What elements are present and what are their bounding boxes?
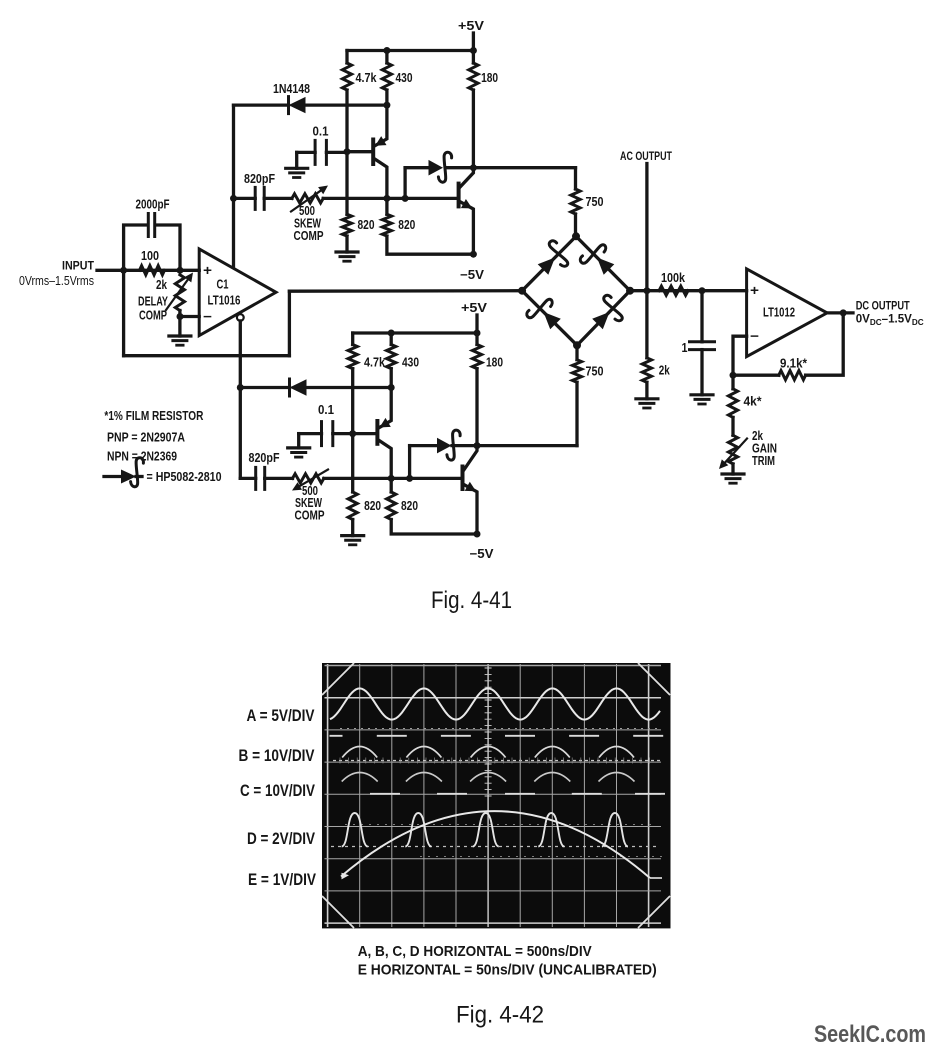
- svg-text:DELAY: DELAY: [138, 295, 168, 309]
- svg-text:4k*: 4k*: [744, 395, 762, 409]
- svg-text:+5V: +5V: [458, 19, 485, 33]
- inverting output circle: [237, 314, 244, 321]
- bridge diode bottom-right: [592, 312, 609, 329]
- svg-text:LT1012: LT1012: [763, 306, 795, 320]
- node output junction: [840, 309, 847, 316]
- diode 1N4148 wire: [234, 103, 289, 106]
- transistor Q1 emitter: [374, 105, 387, 146]
- ground under cap1: [691, 393, 713, 396]
- svg-text:−5V: −5V: [470, 547, 495, 561]
- node minus junction: [177, 313, 184, 320]
- node AC OUTPUT junction: [643, 287, 650, 294]
- node upper rail 430: [383, 47, 390, 54]
- wire 180 to node lower: [475, 369, 478, 446]
- svg-text:2k: 2k: [659, 364, 670, 378]
- node 820pF tap: [230, 195, 237, 202]
- wire 180 to node: [472, 90, 475, 168]
- bridge diode top-right: [597, 258, 614, 275]
- diode lower triangle: [290, 379, 307, 395]
- resistor 820 left upper: [342, 214, 351, 236]
- svg-text:PNP = 2N2907A: PNP = 2N2907A: [107, 431, 185, 445]
- svg-text:B = 10V/DIV: B = 10V/DIV: [239, 746, 316, 765]
- wire 820 left ground stem: [345, 236, 348, 252]
- wire feedback 9.1k row: [733, 374, 779, 377]
- wire AC OUTPUT vertical: [645, 164, 648, 358]
- diode HP5082 upper triangle: [429, 160, 444, 176]
- svg-text:2k: 2k: [156, 278, 167, 292]
- capacitor 0.1 upper: [314, 140, 317, 164]
- wire gain trim ground stem: [731, 464, 734, 474]
- svg-text:750: 750: [586, 365, 604, 379]
- resistor 820 right lower: [387, 492, 396, 520]
- svg-text:−: −: [203, 309, 212, 324]
- wire skew to Q2 base: [323, 197, 458, 200]
- wire 2k to ground: [178, 311, 181, 337]
- wire skew to Q4 base: [324, 477, 463, 480]
- wire feedback bottom: [124, 354, 290, 357]
- node -5V junction lower: [474, 531, 481, 538]
- wire lower rail: [353, 331, 477, 334]
- wire 820pF leads upper: [234, 197, 256, 200]
- svg-text:820: 820: [364, 499, 381, 513]
- node collector-skew junction lower: [388, 475, 395, 482]
- svg-text:C = 10V/DIV: C = 10V/DIV: [240, 781, 316, 800]
- node lower rail 430: [388, 330, 395, 337]
- wire special diode row lower: [410, 444, 438, 447]
- resistor 100k: [659, 286, 688, 295]
- capacitor 1 plates: [690, 340, 715, 343]
- wire -5V row upper: [387, 236, 474, 254]
- svg-text:0Vrms–1.5Vrms: 0Vrms–1.5Vrms: [19, 274, 94, 288]
- capacitor 2000pF loop wires: [124, 225, 146, 270]
- wire 820 left ground stem lower: [351, 520, 354, 536]
- wire 430 to diode node: [385, 90, 388, 105]
- transistor Q4 NPN base bar: [461, 467, 465, 490]
- node bridge right: [626, 287, 634, 295]
- transistor Q3 collector: [378, 440, 391, 478]
- resistor 820 right upper: [382, 214, 391, 236]
- wire 430 to diode node lower: [390, 369, 393, 388]
- arrow 2k delay comp: [166, 280, 188, 310]
- svg-text:750: 750: [586, 195, 604, 209]
- svg-text:100k: 100k: [661, 271, 685, 285]
- arrow skew comp lower: [300, 470, 328, 487]
- resistor 430 upper: [382, 63, 391, 90]
- wire 4.7k column upper: [345, 90, 348, 214]
- node bridge top: [572, 232, 580, 240]
- node bridge bottom: [573, 341, 581, 349]
- wire 0.1 leads upper: [297, 151, 315, 154]
- wire upper cell left vertical: [232, 105, 235, 267]
- svg-text:+: +: [203, 263, 212, 278]
- capacitor 0.1 lower: [320, 422, 323, 446]
- node feedback junction: [730, 372, 737, 379]
- transistor Q2 emitter: [460, 202, 474, 255]
- svg-text:Fig. 4-41: Fig. 4-41: [431, 587, 512, 614]
- svg-text:430: 430: [402, 356, 419, 370]
- svg-text:820: 820: [358, 218, 375, 232]
- ground under 0.1 upper: [286, 167, 308, 170]
- ground under 820 upper: [336, 250, 358, 253]
- svg-text:+: +: [750, 283, 759, 298]
- svg-text:430: 430: [396, 71, 413, 85]
- ground under 0.1 lower: [288, 446, 310, 449]
- resistor 500 skew comp lower: [293, 474, 324, 483]
- bridge arm bottom-left: [522, 291, 577, 346]
- svg-text:SeekIC.com: SeekIC.com: [814, 1021, 926, 1048]
- transistor Q2 collector: [460, 168, 474, 188]
- arrow gain trim: [725, 439, 747, 463]
- transistor Q2 NPN base bar: [457, 184, 461, 207]
- transistor Q3 PNP base bar: [375, 421, 379, 444]
- wire bridge to op-amp: [630, 289, 747, 292]
- wire special diode drop lower: [408, 446, 411, 479]
- wire +5V stub upper: [472, 33, 475, 51]
- svg-text:COMP: COMP: [295, 509, 325, 523]
- resistor 2k delay comp: [175, 275, 184, 311]
- node collector-skew junction: [383, 195, 390, 202]
- svg-text:*1% FILM RESISTOR: *1% FILM RESISTOR: [104, 409, 203, 423]
- legend diode squiggle: [131, 458, 144, 487]
- wire upper rail: [347, 49, 473, 52]
- wire 0.1 ground stem upper: [295, 152, 298, 168]
- bridge diode bottom-left: [544, 312, 561, 329]
- svg-text:DC OUTPUT: DC OUTPUT: [856, 299, 911, 313]
- capacitor 820pF lower: [254, 467, 257, 489]
- svg-text:A, B, C, D HORIZONTAL = 500ns/: A, B, C, D HORIZONTAL = 500ns/DIV: [358, 943, 592, 960]
- wire -5V row lower: [391, 520, 477, 535]
- wire inverted output vertical: [239, 321, 242, 479]
- node lower rail 180: [474, 330, 481, 337]
- bridge arm top-right: [576, 236, 630, 290]
- svg-text:INPUT: INPUT: [62, 259, 95, 273]
- diode lower cathode bar: [288, 379, 291, 396]
- resistor 500 skew comp upper: [292, 194, 323, 203]
- resistor 180 upper: [469, 63, 478, 90]
- svg-text:2000pF: 2000pF: [136, 198, 170, 212]
- transistor Q3 emitter: [378, 388, 391, 429]
- wire 820pF leads lower: [240, 477, 255, 480]
- svg-text:A = 5V/DIV: A = 5V/DIV: [247, 706, 316, 725]
- transistor Q1 PNP base bar: [371, 140, 375, 165]
- node bridge left: [518, 287, 526, 295]
- svg-text:9.1k*: 9.1k*: [780, 357, 807, 371]
- svg-text:−: −: [750, 329, 759, 344]
- node diode-430 junction lower: [388, 384, 395, 391]
- node plus-input junction: [177, 267, 184, 274]
- svg-text:180: 180: [486, 356, 503, 370]
- diode 1N4148 triangle: [289, 97, 306, 113]
- svg-text:820: 820: [401, 499, 418, 513]
- ground under gain trim: [722, 472, 744, 475]
- ground under 2k AC: [636, 397, 658, 400]
- wire 0.1 ground stem lower: [297, 434, 300, 448]
- svg-text:1N4148: 1N4148: [273, 82, 310, 96]
- bridge diode top-left: [538, 258, 555, 275]
- capacitor 1 lead: [700, 291, 703, 342]
- wire LT1012 output: [827, 311, 853, 314]
- wire feedback left vertical: [122, 270, 125, 355]
- svg-text:0VDC–1.5VDC: 0VDC–1.5VDC: [856, 312, 924, 328]
- wire 2k AC ground stem: [645, 382, 648, 399]
- wire comparator output to bridge: [289, 289, 522, 293]
- svg-text:COMP: COMP: [139, 309, 167, 323]
- capacitor 2000pF: [147, 214, 150, 237]
- transistor Q4 emitter: [464, 484, 478, 534]
- diode HP5082 lower triangle: [437, 438, 452, 454]
- node base junction lower: [349, 430, 356, 437]
- wire minus input LT1012: [733, 336, 747, 375]
- wire special diode row upper: [405, 166, 429, 169]
- svg-text:C1: C1: [217, 278, 229, 292]
- diode HP5082 upper squiggle: [438, 152, 451, 182]
- diode lower wire: [239, 386, 289, 389]
- ground under 2k: [169, 334, 191, 337]
- node inverted-output diode junction: [237, 384, 244, 391]
- node diode-430 junction: [383, 102, 390, 109]
- diode 1N4148 cathode bar: [287, 97, 290, 114]
- node -5V junction upper: [470, 251, 477, 258]
- transistor Q1 base lead: [347, 150, 373, 153]
- op-amp C1 LT1016 triangle: [199, 249, 276, 336]
- svg-text:E = 1V/DIV: E = 1V/DIV: [248, 870, 317, 889]
- node 180-collector junction lower: [474, 442, 481, 449]
- resistor 9.1k: [779, 371, 806, 380]
- oscilloscope photo Fig 4-42: [322, 663, 671, 928]
- wire special diode drop: [403, 168, 406, 199]
- node base junction upper: [344, 148, 351, 155]
- ground under 820 lower: [342, 534, 364, 537]
- svg-text:LT1016: LT1016: [208, 294, 241, 308]
- legend diode wire: [104, 475, 121, 478]
- resistor 4.7k lower: [348, 345, 357, 369]
- resistor 180 lower: [472, 345, 481, 369]
- node input junction: [120, 267, 127, 274]
- transistor Q1 collector: [374, 159, 387, 199]
- svg-text:100: 100: [141, 249, 159, 263]
- wire +5V stub lower: [475, 315, 478, 333]
- node cap1 junction: [699, 287, 706, 294]
- svg-text:AC OUTPUT: AC OUTPUT: [620, 149, 672, 163]
- wire feedback right vertical: [288, 291, 291, 356]
- node upper rail 180: [470, 47, 477, 54]
- transistor Q4 collector: [464, 446, 478, 471]
- svg-text:+5V: +5V: [461, 301, 488, 315]
- node skew-diode junction: [402, 195, 409, 202]
- svg-text:820pF: 820pF: [249, 451, 280, 465]
- op-amp LT1012 triangle: [747, 269, 828, 357]
- svg-text:D = 2V/DIV: D = 2V/DIV: [247, 829, 316, 848]
- resistor 750 upper: [574, 168, 577, 189]
- resistor 100: [140, 266, 165, 275]
- legend diode triangle: [121, 470, 136, 484]
- svg-text:TRIM: TRIM: [752, 454, 775, 468]
- wire 4.7k column lower: [351, 369, 354, 492]
- node skew-diode junction lower: [406, 475, 413, 482]
- bridge arm top-left: [522, 236, 576, 290]
- svg-text:4.7k: 4.7k: [356, 71, 377, 85]
- svg-text:E HORIZONTAL = 50ns/DIV (UNCAL: E HORIZONTAL = 50ns/DIV (UNCALIBRATED): [358, 962, 657, 979]
- svg-text:−5V: −5V: [460, 268, 485, 282]
- capacitor 820pF upper: [254, 187, 257, 209]
- wire cap1 ground stem: [700, 350, 703, 395]
- resistor 750 lower: [575, 345, 578, 359]
- bridge arm bottom-right: [577, 291, 630, 346]
- svg-text:820pF: 820pF: [244, 172, 275, 186]
- svg-text:4.7k: 4.7k: [364, 356, 385, 370]
- svg-text:Fig. 4-42: Fig. 4-42: [456, 1002, 544, 1029]
- arrow skew comp upper: [291, 191, 321, 212]
- resistor 2k AC: [642, 358, 651, 382]
- svg-text:1: 1: [682, 341, 688, 355]
- resistor 4.7k upper: [342, 63, 351, 90]
- wire 0.1 leads lower: [299, 432, 322, 435]
- resistor 4k: [728, 389, 737, 418]
- resistor 430 lower: [387, 345, 396, 369]
- svg-text:0.1: 0.1: [318, 403, 334, 417]
- diode HP5082 lower squiggle: [447, 430, 460, 460]
- wire input lead: [97, 269, 199, 272]
- transistor Q3 base lead: [353, 432, 378, 435]
- node 180-collector junction: [470, 164, 477, 171]
- svg-text:180: 180: [481, 71, 498, 85]
- svg-text:820: 820: [398, 218, 415, 232]
- svg-text:0.1: 0.1: [313, 125, 329, 139]
- wire minus input: [180, 315, 199, 318]
- resistor 2k gain trim: [728, 435, 737, 464]
- svg-text:COMP: COMP: [294, 229, 324, 243]
- svg-text:= HP5082-2810: = HP5082-2810: [147, 470, 222, 484]
- resistor 820 left lower: [348, 492, 357, 520]
